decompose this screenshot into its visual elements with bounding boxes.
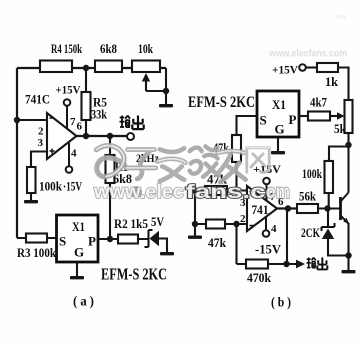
op-amp U1 741C (25, 93, 77, 160)
pin4 -15V terminal b (255, 217, 281, 257)
svg-text:2CK: 2CK (301, 226, 320, 240)
wire: 47k down to input node (235, 162, 237, 191)
arrow: output b (296, 260, 305, 268)
junction: P R1 node (107, 236, 113, 242)
junction: rail top node b (192, 187, 198, 193)
wire: G pin to ground (b) (277, 137, 279, 151)
svg-text:·15V: ·15V (63, 180, 82, 194)
svg-text:S: S (260, 113, 267, 128)
svg-text:4: 4 (71, 148, 77, 160)
svg-text:P: P (289, 112, 297, 127)
svg-text:5V: 5V (151, 215, 164, 229)
resistor R4 150k (40, 61, 72, 73)
op-amp U2 741 (247, 186, 277, 231)
junction: inverting feedback node (233, 221, 239, 227)
svg-text:100k: 100k (39, 180, 62, 194)
wire: 1k to pot rail (338, 68, 349, 101)
svg-text:470k: 470k (247, 271, 271, 285)
svg-text:( a ): ( a ) (73, 294, 94, 309)
svg-text:-15V: -15V (255, 243, 281, 257)
wire: non-inverting input (31, 152, 47, 168)
potentiometer 5k (334, 100, 353, 136)
junction: wiper node (163, 88, 169, 94)
svg-text:1k: 1k (325, 75, 338, 89)
ground: X1 a (70, 276, 84, 279)
wire: P pin row (a) (98, 238, 149, 240)
junction: output feedback node (285, 205, 291, 211)
wire: feedback riser (286, 209, 288, 265)
svg-text:4k7: 4k7 (310, 96, 327, 110)
wire: inverting row (b) (195, 223, 247, 225)
wire: pot down rail to collector (347, 133, 349, 193)
resistor 100k noninverting (27, 167, 62, 194)
resistor 47k vertical (213, 135, 241, 162)
svg-text:om: om (266, 181, 290, 203)
resistor 470k (246, 260, 271, 286)
ground: noninverting network (24, 200, 38, 203)
svg-text:G: G (275, 122, 285, 137)
svg-text:S: S (59, 234, 66, 249)
resistor R3 100k (17, 234, 56, 261)
wire: output b to 56k (277, 207, 297, 209)
svg-text:( b ): ( b ) (271, 295, 291, 310)
wire: circuit a top feedback bus (17, 67, 166, 69)
resistor 47k row1 (205, 173, 227, 196)
resistor 4k7 (299, 96, 330, 121)
watermark: www.elecfans.com band (93, 181, 290, 203)
svg-text:+15V: +15V (56, 83, 81, 97)
resistor 1k (317, 63, 338, 89)
zener diode 2CK (301, 209, 349, 256)
svg-text:10k: 10k (138, 41, 154, 56)
wire: 56k to base (318, 207, 340, 209)
pin4 -15V terminal (63, 143, 82, 194)
watermark: faint top right (268, 12, 347, 60)
svg-text:G: G (74, 245, 84, 260)
ground: left rail b (188, 236, 202, 239)
ground: emitter (342, 270, 356, 273)
svg-text:www.elecfans.com: www.elecfans.com (268, 48, 347, 60)
resistor 47k row2 (206, 220, 226, 251)
terminal: output a (127, 133, 134, 140)
watermark: big cursive characters (96, 146, 269, 183)
svg-text:+15V: +15V (272, 63, 298, 77)
wire: zener to ground (159, 239, 167, 253)
wire: top bus right end down (165, 68, 167, 104)
svg-text:+15V: +15V (253, 162, 281, 176)
svg-text:56k: 56k (299, 190, 316, 204)
svg-text:6: 6 (77, 121, 83, 133)
resistor R5 33k (82, 68, 108, 136)
svg-text:2: 2 (240, 213, 246, 225)
resistor R1 6k8 (106, 136, 133, 239)
wire: pot wiper to right branch (146, 90, 166, 92)
svg-text:2: 2 (38, 126, 44, 138)
svg-text:fans.c: fans.c (186, 181, 266, 203)
resistor 56k (297, 190, 318, 214)
svg-text:33k: 33k (91, 108, 107, 122)
svg-text:100k: 100k (302, 167, 322, 181)
svg-text:X1: X1 (272, 97, 286, 112)
wire: 100k bottom to base node (328, 193, 330, 209)
svg-text:4: 4 (271, 223, 277, 235)
wire: inverting input from rail (17, 119, 47, 121)
wire: left rail b (194, 191, 196, 236)
resistor R2 1k5 (114, 217, 148, 244)
pin7 +15V terminal (56, 83, 81, 130)
junction: base 100k node (324, 205, 330, 211)
svg-text:www.elec: www.elec (93, 181, 184, 203)
wire: feedback down leg (235, 224, 237, 264)
resistor 100k (b) (302, 161, 333, 193)
svg-text:EFM-S 2KC: EFM-S 2KC (188, 94, 255, 111)
ground: X1 b (271, 151, 285, 154)
transistor Q1 (341, 193, 350, 225)
wire: rail to 100k top (329, 147, 349, 162)
potentiometer 10k (132, 41, 160, 91)
pin7 +15V terminal b (253, 162, 281, 200)
label: output a (Chinese) (120, 116, 144, 130)
wire: 4k7 to pot wiper arrow (330, 115, 338, 117)
junction: emitter zener node (345, 252, 351, 258)
module X1 EFM-S 2KC (a) (57, 215, 99, 262)
svg-text:R3 100k: R3 100k (17, 246, 56, 260)
svg-text:R4 150k: R4 150k (51, 41, 83, 56)
svg-text:741C: 741C (25, 93, 50, 107)
module X1 EFM-S 2KC (b) (257, 91, 299, 137)
wire: noninverting row (b) (195, 189, 247, 191)
ground: zener a (160, 252, 174, 255)
wire: +15V to 1k (306, 66, 317, 68)
label: output b (Chinese) (307, 258, 328, 270)
svg-text:741: 741 (252, 203, 269, 217)
wire: op-amp output (77, 135, 127, 137)
junction: 47k divider node (233, 187, 239, 193)
terminal +15V b top (272, 63, 306, 77)
wire: feedback bottom row (237, 263, 297, 265)
svg-text:5k: 5k (334, 122, 346, 136)
svg-text:X1: X1 (72, 219, 85, 234)
wire: emitter rail down (347, 223, 349, 270)
junction: feedback output node (283, 261, 289, 267)
wire: R3 row (17, 237, 57, 239)
svg-text:R2 1k5: R2 1k5 (114, 217, 148, 231)
wire: 100k to ground (30, 193, 32, 200)
svg-text:47k: 47k (208, 236, 226, 250)
junction: output R1 node (107, 133, 113, 139)
svg-text:6k8: 6k8 (100, 41, 117, 56)
resistor 6k8 top (95, 61, 122, 73)
wire: circuit a left rail (16, 68, 18, 238)
svg-text:7: 7 (70, 116, 76, 128)
junction: rail inverting b (192, 221, 198, 227)
wire: G pin to ground (a) (76, 262, 78, 276)
svg-text:EFM-S 2KC: EFM-S 2KC (101, 265, 167, 284)
svg-text:3: 3 (38, 137, 44, 149)
junction: output R5 node (83, 133, 89, 139)
junction: R5 top on bus (83, 65, 89, 71)
junction: rail 100k node (345, 142, 351, 148)
svg-text:≈≈: ≈≈ (336, 12, 346, 22)
wire: S pin to divider (237, 116, 258, 135)
zener diode 5V (145, 215, 165, 247)
ground: pot branch (159, 104, 173, 107)
junction: rail inverting node (14, 117, 20, 123)
svg-text:P: P (88, 234, 96, 249)
